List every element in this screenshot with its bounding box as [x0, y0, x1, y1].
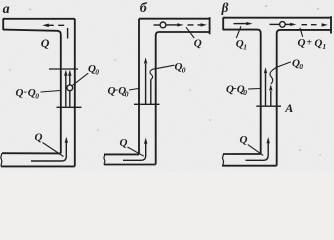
leader line Q bottom b	[128, 147, 144, 156]
measurement tick lower a	[57, 106, 82, 108]
dashed flow arrow b	[188, 24, 202, 26]
scan noise specks	[9, 5, 320, 155]
paper background	[0, 0, 334, 172]
leader line Q b	[186, 27, 194, 38]
leader line from Q-Q0 v	[248, 88, 260, 91]
duct v: bottom run bottom wall	[222, 165, 277, 167]
flow arrow up 1 in riser v	[265, 74, 267, 106]
duct v: bottom left broken end	[223, 154, 224, 166]
flow arrow right of fan b	[166, 24, 180, 26]
squiggle leader to Q0 v	[270, 62, 291, 84]
flow arrow up 1 in riser b	[145, 64, 147, 104]
flow arrow up 2 in riser v	[270, 91, 272, 106]
duct v: bottom run top wall	[223, 153, 261, 155]
fan circle b	[160, 22, 166, 28]
measurement tick upper a	[49, 68, 78, 70]
duct b: bottom run top wall	[104, 153, 139, 155]
leader line to Q0 a	[72, 73, 88, 85]
fan circle v	[280, 22, 286, 28]
duct a: bottom left broken end	[1, 153, 2, 166]
leader line Q bottom v	[248, 145, 263, 156]
elbow flow arrow v	[246, 142, 269, 161]
duct a: bottom run top wall	[2, 152, 61, 154]
dashed flow arrow v	[302, 24, 317, 26]
squiggle leader to Q0 b	[150, 65, 175, 79]
duct b: top wall of horizontal run	[139, 18, 210, 20]
duct a: bottom run bottom wall	[1, 165, 75, 167]
duct v: left end cap	[222, 17, 224, 30]
duct v: right end cap	[330, 16, 332, 33]
fan inlet line v	[270, 23, 280, 25]
duct b: right end cap	[209, 17, 211, 34]
fan circle a	[67, 85, 73, 91]
flow arrow Q1 v	[234, 23, 249, 25]
duct a: outer vertical wall	[74, 19, 76, 167]
duct v: bottom wall right segment + tee right wall	[277, 30, 331, 166]
leader line Q1 v	[236, 26, 241, 38]
duct b: outer-left vertical wall	[138, 19, 140, 155]
duct a: left open-end cap	[2, 19, 4, 31]
flow arrow right of fan v	[285, 23, 292, 25]
measurement tick A v	[256, 105, 281, 107]
duct v: bottom wall left segment + tee left wall	[223, 30, 261, 155]
elbow flow arrow b	[123, 142, 146, 160]
flow arrow up 1 in riser a	[65, 74, 67, 107]
scan texture overlay	[0, 0, 1, 1]
leader line from Q-Q0 a	[41, 91, 61, 93]
flow arrow up 2 shaft b	[150, 80, 152, 105]
leader line Q bottom a	[43, 143, 64, 157]
flow arrow dashed (exhaust to left)	[46, 25, 68, 38]
duct a: top horizontal run, top wall	[3, 18, 75, 20]
duct a: top run bottom wall + inner vertical wall	[3, 30, 61, 154]
measurement tick b	[134, 103, 160, 105]
flow arrowhead left	[42, 24, 49, 28]
duct b: bottom left broken end	[104, 154, 105, 164]
leader line Q+Q1 v	[300, 28, 303, 37]
duct v: top wall	[223, 17, 331, 19]
elbow flow arrow a	[31, 141, 66, 161]
leader line from Q-Q0 b	[129, 89, 138, 91]
fan inlet line b	[154, 24, 161, 26]
flow arrow up 2 in riser a	[69, 74, 71, 107]
duct b: bottom run bottom wall	[104, 164, 156, 166]
duct b: bottom wall + inner vertical wall	[156, 32, 210, 164]
